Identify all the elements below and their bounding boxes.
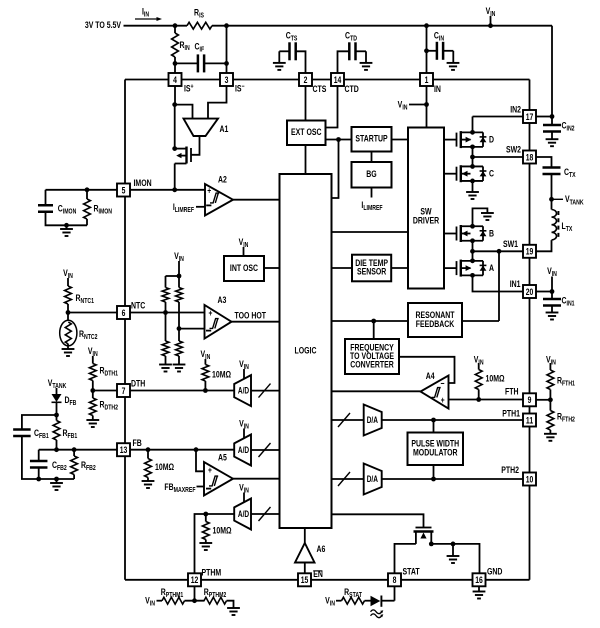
- svg-text:2: 2: [304, 75, 308, 85]
- svg-text:IMON: IMON: [134, 178, 152, 188]
- svg-text:DRIVER: DRIVER: [413, 216, 439, 226]
- svg-text:FEEDBACK: FEEDBACK: [416, 319, 455, 329]
- svg-text:STARTUP: STARTUP: [355, 134, 388, 144]
- svg-text:GND: GND: [487, 567, 502, 577]
- svg-text:IN2: IN2: [510, 105, 521, 115]
- svg-text:1: 1: [425, 75, 429, 85]
- svg-text:FB: FB: [133, 438, 142, 448]
- svg-text:SW1: SW1: [503, 239, 518, 249]
- svg-text:D/A: D/A: [367, 415, 379, 425]
- svg-text:A4: A4: [426, 371, 435, 381]
- svg-text:PTH2: PTH2: [501, 465, 519, 475]
- svg-text:EXT OSC: EXT OSC: [291, 127, 322, 137]
- svg-text:PTH1: PTH1: [502, 409, 520, 419]
- svg-text:A/D: A/D: [238, 386, 250, 396]
- svg-text:INT OSC: INT OSC: [230, 263, 258, 273]
- svg-text:DTH: DTH: [131, 379, 145, 389]
- svg-text:A2: A2: [218, 175, 227, 185]
- svg-text:10MΩ: 10MΩ: [486, 374, 505, 384]
- svg-text:18: 18: [526, 152, 534, 162]
- svg-text:+: +: [207, 186, 211, 196]
- svg-text:TOO HOT: TOO HOT: [235, 311, 266, 321]
- svg-text:10MΩ: 10MΩ: [213, 526, 232, 536]
- svg-text:LOGIC: LOGIC: [295, 345, 317, 355]
- svg-text:B: B: [489, 229, 494, 239]
- svg-text:3V TO 5.5V: 3V TO 5.5V: [85, 20, 122, 30]
- svg-text:SW2: SW2: [506, 145, 521, 155]
- svg-text:10MΩ: 10MΩ: [212, 370, 231, 380]
- svg-text:20: 20: [526, 287, 534, 297]
- svg-text:FTH: FTH: [505, 387, 519, 397]
- svg-text:PTHM: PTHM: [202, 568, 222, 578]
- svg-text:3: 3: [225, 75, 229, 85]
- svg-text:A/D: A/D: [238, 445, 250, 455]
- svg-text:8: 8: [393, 575, 397, 585]
- svg-text:A/D: A/D: [238, 509, 250, 519]
- svg-text:+: +: [208, 465, 212, 475]
- svg-text:A6: A6: [317, 544, 326, 554]
- svg-text:17: 17: [526, 112, 534, 122]
- svg-text:10MΩ: 10MΩ: [155, 462, 174, 472]
- svg-text:6: 6: [122, 308, 126, 318]
- svg-text:IN: IN: [434, 84, 441, 94]
- svg-text:A1: A1: [220, 124, 229, 134]
- svg-text:NTC: NTC: [131, 301, 145, 311]
- svg-text:−: −: [441, 378, 445, 388]
- svg-text:5: 5: [122, 185, 126, 195]
- svg-text:A3: A3: [218, 295, 227, 305]
- svg-text:9: 9: [528, 395, 532, 405]
- svg-text:D/A: D/A: [367, 474, 379, 484]
- svg-text:+: +: [441, 395, 445, 405]
- svg-text:14: 14: [334, 75, 342, 85]
- svg-text:STAT: STAT: [403, 567, 420, 577]
- svg-text:11: 11: [526, 415, 534, 425]
- svg-text:IN1: IN1: [510, 279, 521, 289]
- svg-text:BG: BG: [366, 169, 376, 179]
- svg-text:16: 16: [475, 575, 483, 585]
- svg-text:7: 7: [122, 386, 126, 396]
- svg-text:SENSOR: SENSOR: [357, 267, 386, 277]
- svg-text:19: 19: [526, 247, 534, 257]
- svg-text:CTD: CTD: [345, 84, 359, 94]
- svg-text:C: C: [489, 169, 494, 179]
- svg-text:10: 10: [526, 474, 534, 484]
- svg-text:CTS: CTS: [313, 84, 327, 94]
- svg-text:+: +: [209, 308, 213, 318]
- svg-text:A5: A5: [218, 453, 227, 463]
- svg-text:MODULATOR: MODULATOR: [413, 448, 457, 458]
- svg-text:4: 4: [173, 75, 177, 85]
- svg-text:D: D: [489, 134, 494, 144]
- svg-text:A: A: [489, 263, 494, 273]
- svg-text:13: 13: [120, 445, 128, 455]
- svg-text:15: 15: [301, 575, 309, 585]
- svg-text:CONVERTER: CONVERTER: [350, 360, 394, 370]
- svg-text:12: 12: [191, 575, 199, 585]
